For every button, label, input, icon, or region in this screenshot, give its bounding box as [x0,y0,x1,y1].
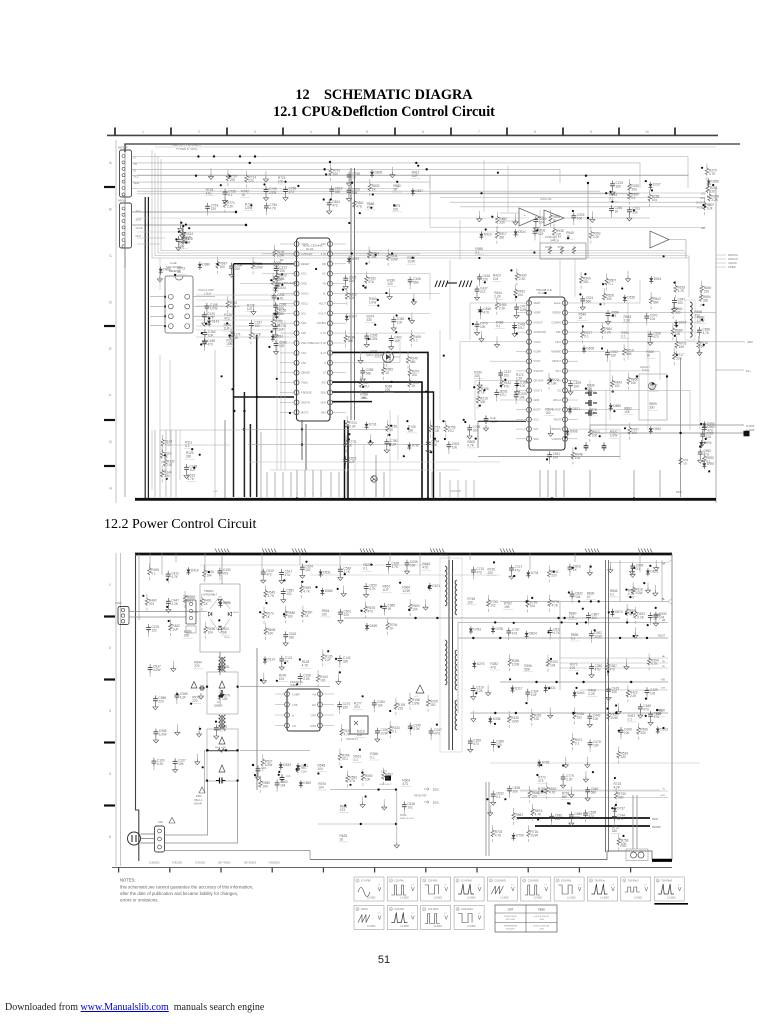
svg-text:1K: 1K [266,615,271,619]
wire [346,340,400,363]
svg-text:D514: D514 [654,277,662,281]
junction [340,766,342,768]
resistor R990 [703,451,715,468]
capacitor C160 bold [585,410,597,416]
svg-text:D885: D885 [613,404,621,408]
varistor block [207,672,238,714]
svg-text:47U: 47U [448,429,455,433]
label R668 [694,310,704,318]
capacitor C475 [146,624,159,637]
svg-text:1UF: 1UF [349,460,355,464]
wire SDA [132,224,248,226]
svg-text:100: 100 [473,429,479,433]
label R384 [384,385,394,393]
junction [168,620,170,622]
wire outer left [124,152,126,497]
svg-text:errors or omissions.: errors or omissions. [120,898,159,903]
svg-text:D699: D699 [370,624,378,628]
waveform box 5 [487,877,517,901]
resistor R917 [495,227,507,244]
wire [490,360,516,362]
svg-text:D275: D275 [477,662,485,666]
svg-text:SDA: SDA [321,391,327,395]
junction [349,784,351,786]
ground [585,757,590,768]
ground [494,336,499,347]
capacitor C713 [471,567,484,580]
svg-text:L3-3602: L3-3602 [434,926,443,928]
wire drop [449,480,451,497]
resistor R948 [571,447,583,464]
svg-text:10K: 10K [551,381,558,385]
label R335 [178,240,188,248]
svg-text:STACUT: STACUT [534,369,545,373]
capacitor C325 [343,275,356,290]
resistor R703 [675,337,687,354]
svg-text:100: 100 [320,679,326,683]
svg-text:TR36/7/2007: TR36/7/2007 [504,916,517,918]
diode D871 [568,406,580,414]
svg-text:D114: D114 [268,657,276,661]
junction [205,323,207,325]
wire SCL dark [478,421,526,448]
resistor R923 [634,607,646,624]
resistor R938 [552,224,564,241]
junction [631,612,633,614]
resistor R573 [262,607,274,624]
junction [389,732,391,734]
junction [260,679,262,681]
wire pin [333,372,347,374]
resistor R293 [706,181,718,198]
junction [533,251,535,253]
svg-text:473: 473 [473,742,479,746]
svg-text:x: x [539,493,541,495]
capacitor C188 [514,380,527,395]
junction [226,322,228,324]
svg-text:1.7: 1.7 [578,885,582,887]
capacitor bold EARS [275,281,297,290]
resistor R527 [261,754,273,771]
wire pin [333,352,347,354]
label R878 [588,408,598,416]
svg-text:1K: 1K [553,219,558,223]
svg-text:I5: I5 [134,168,137,172]
junction [612,314,614,316]
wire SCL [132,211,238,213]
svg-text:4.7E: 4.7E [321,252,327,256]
junction [615,712,617,714]
resistor R451 [514,285,526,302]
junction [592,771,594,773]
wire SCL thick [333,352,429,498]
waveform box 8 [588,877,618,901]
svg-text:4.7K: 4.7K [549,791,556,795]
ruler tick [282,128,284,136]
junction [645,180,647,182]
diode D514 [649,276,661,284]
junction [630,681,632,683]
ruler tick [226,128,228,136]
junction [284,662,286,664]
svg-text:GPT-DNT: GPT-DNT [506,919,516,921]
diode D283 [271,334,283,342]
junction [636,375,682,434]
diode D541 [296,763,308,771]
resistor R135 [321,649,333,666]
capacitor C433 [218,568,231,581]
wire [262,253,296,255]
resistor R178 [249,327,261,344]
svg-text:D804: D804 [529,632,537,636]
capacitor C100 [152,758,165,771]
svg-text:C20-P60D: C20-P60D [494,880,505,883]
resistor R251 [628,188,640,205]
resistor R597 [382,768,394,785]
svg-text:SENSE: SENSE [301,371,310,375]
resistor R717 [673,348,685,365]
label R219 [356,730,366,738]
wire rail [458,635,668,639]
op-amp U3B [544,210,564,226]
svg-text:SCL: SCL [301,311,307,315]
svg-text:XSPNON: XSPNON [550,427,561,431]
resistor R506 [637,723,649,740]
junction [611,807,613,809]
svg-text:10K: 10K [683,463,688,466]
wire rail [478,456,620,458]
resistor R394 [647,653,659,670]
wire rail [520,789,660,791]
junction [526,600,528,602]
resistor R580 [284,606,296,623]
svg-text:VCC: VCC [301,272,307,276]
junction [278,774,280,776]
svg-text:473: 473 [289,190,295,194]
svg-text:9: 9 [590,130,592,134]
svg-text:x: x [555,493,557,495]
junction [480,192,482,194]
junction [590,600,592,602]
junction [344,573,346,575]
svg-text:CRV: CRV [747,340,753,344]
wire pin [280,372,294,374]
svg-text:330: 330 [574,816,580,820]
svg-text:47U: 47U [253,336,260,340]
junction [615,704,617,706]
svg-text:C20-P60: C20-P60 [428,880,438,883]
svg-text:100: 100 [593,717,599,721]
junction [582,681,584,683]
wire pin [333,263,347,265]
svg-text:C20-P6v: C20-P6v [394,880,404,883]
svg-text:D951: D951 [222,665,230,669]
label R875 [392,204,402,212]
junction [676,325,678,327]
hatch mark [292,549,307,554]
svg-text:1UF: 1UF [325,658,331,662]
wire drop [473,480,475,497]
diode D331 [544,685,556,693]
svg-text:1.7: 1.7 [611,885,615,887]
svg-text:N2O: N2O [321,400,326,404]
junction [651,189,653,191]
svg-text:1K: 1K [177,270,182,274]
capacitor C798 [347,172,360,187]
waveform box 1 [354,877,384,901]
svg-text:330: 330 [618,796,624,800]
svg-text:1K: 1K [348,444,353,448]
label WDATA [716,253,738,257]
wire [243,392,245,497]
svg-text:330: 330 [703,298,709,302]
capacitor C598 [648,331,661,346]
svg-text:100: 100 [467,600,473,604]
wire [196,319,282,321]
capacitor C485 [638,704,651,719]
svg-text:G: G [109,440,112,444]
label box [186,626,196,633]
junction [436,617,438,619]
op-amp U3A [519,208,540,226]
label R576 [317,782,327,790]
wire drop [159,430,161,497]
wire pin [333,401,347,403]
junction [263,183,265,185]
diode D709 [512,833,524,841]
resistor R584 [601,322,613,339]
capacitor C611 [255,766,267,781]
resistor R752 [429,420,441,437]
wire pin [333,253,347,255]
ground [261,673,266,684]
resistor R496 [204,622,216,639]
wire [301,420,303,460]
label R373 [569,663,579,671]
junction [708,470,710,472]
svg-text:473: 473 [609,667,615,671]
ruler tick [450,128,452,136]
wire pin [516,341,527,343]
label pin [659,493,661,495]
left margin dash 2 [104,804,115,806]
svg-text:DN9G: DN9G [400,814,407,817]
label R125 [185,451,195,459]
diode D699 [365,623,377,631]
svg-text:FB30: FB30 [538,908,545,912]
junction [579,293,581,295]
label R643 [421,562,431,570]
svg-text:4.7K: 4.7K [552,603,559,607]
svg-text:47U: 47U [490,666,497,670]
svg-text:473: 473 [653,335,659,339]
grid number 2 [109,646,111,650]
wire pin [333,302,347,304]
label bold marks [459,281,472,288]
junction [430,451,432,453]
label R486 [495,321,505,329]
warning triangle [414,685,424,698]
svg-text:0.1: 0.1 [571,637,576,641]
resistor R654 [699,290,711,307]
svg-text:IGR20-88LT: IGR20-88LT [203,593,217,597]
svg-text:47U: 47U [500,393,507,397]
capacitor C139 [184,464,197,479]
resistor R913 [588,425,600,442]
junction [301,581,303,583]
ruler number [366,130,368,134]
ground [608,562,613,573]
wire [627,300,629,360]
svg-text:104: 104 [318,767,324,771]
grid letter D [109,301,112,305]
svg-text:56K: 56K [513,790,520,794]
svg-text:D338: D338 [493,717,501,721]
svg-text:SDA: SDA [134,181,140,185]
inductor L90 [685,300,695,340]
svg-text:330: 330 [186,455,192,459]
resistor R776 [548,595,560,612]
svg-text:330: 330 [499,235,505,239]
svg-text:D419: D419 [191,568,199,572]
wire [346,274,430,300]
svg-text:HPOUT: HPOUT [552,359,561,363]
svg-text:D906: D906 [570,430,578,434]
diode D805 [370,170,382,178]
svg-text:2.2K: 2.2K [588,692,595,696]
svg-text:FEEDK: FEEDK [552,311,561,315]
svg-text:2: 2 [109,646,111,650]
svg-text:56K: 56K [586,300,593,304]
hatch mark [262,549,277,554]
svg-text:10K: 10K [262,784,269,788]
svg-text:GND: GND [301,282,307,286]
ground bus bottom [135,498,716,501]
label R808 [466,440,476,448]
label R122 [246,304,256,312]
capacitor C983 [698,449,711,464]
ground [513,214,518,225]
svg-text:100: 100 [520,384,526,388]
svg-text:IC-0-P60: IC-0-P60 [361,880,371,883]
svg-text:C-4: C-4 [286,774,291,778]
diode D143 [207,319,219,327]
junction [178,231,180,233]
junction [702,204,704,206]
svg-text:100: 100 [675,332,681,336]
capacitor C854 [327,200,340,215]
waveform box 10 [654,877,684,901]
resistor R118 [160,447,171,464]
diode D847 [411,188,423,196]
svg-text:102: 102 [538,232,544,236]
svg-text:0.1: 0.1 [631,196,636,200]
junction [479,310,481,312]
bottom tiny refs [149,862,280,865]
resistor R528 [603,288,615,305]
junction [602,283,604,285]
resistor R881 [625,604,637,621]
capacitor C499 [619,727,632,740]
capacitor C909 [630,563,643,578]
svg-text:220: 220 [704,289,710,293]
svg-text:F60x: F60x [196,794,202,798]
junction [296,768,298,770]
svg-text:8021-CE5-845: 8021-CE5-845 [303,244,323,248]
svg-text:10K: 10K [226,342,233,346]
svg-text:2.2K: 2.2K [566,778,573,782]
wire [389,410,391,497]
capacitor C615 [283,631,296,646]
resistor R587 [301,606,313,623]
diode D535 [623,295,635,303]
svg-text:1.7: 1.7 [378,885,382,887]
capacitor C601 [338,609,351,624]
junction [575,447,577,449]
svg-text:473: 473 [476,571,482,575]
wire [578,409,640,411]
svg-text:1UF: 1UF [412,174,418,178]
svg-text:C5S: C5S [661,688,666,690]
thermistor block [207,729,238,751]
resistor R507 [605,273,617,290]
wire pin [516,399,527,401]
left margin dash 2 [104,678,115,680]
wire drop [165,430,167,497]
warning triangle [199,787,205,793]
label R261 [353,755,363,763]
svg-text:S-47: S-47 [321,351,327,355]
capacitor C815 [343,456,356,469]
svg-text:x: x [320,493,322,495]
junction [560,621,562,623]
resistor R770 [223,196,235,213]
label R793 [561,792,571,800]
junction [531,597,533,599]
wire [170,360,230,445]
svg-text:4.7K: 4.7K [369,587,376,591]
junction [536,774,538,776]
svg-text:473: 473 [332,204,338,208]
svg-text:100: 100 [279,344,285,348]
diode D534 [279,762,291,770]
resistor R304 [367,247,379,264]
capacitor C688 [569,812,582,827]
svg-text:C.S7: C.S7 [320,331,326,335]
svg-text:4.7K: 4.7K [269,207,276,211]
svg-text:x: x [547,493,549,495]
wire [574,259,576,297]
svg-text:-289: -289 [539,919,544,921]
junction [176,693,178,695]
junction [609,191,611,193]
svg-text:R203: R203 [545,246,552,249]
svg-text:100: 100 [220,265,226,269]
junction [256,396,258,398]
svg-text:220: 220 [248,179,254,183]
svg-text:10K: 10K [624,410,631,414]
capacitor C784 [264,203,277,216]
junction [185,224,187,226]
junction [576,672,578,674]
label R149 [278,673,288,681]
diode D566 [320,588,332,596]
wire drop [389,554,391,563]
left margin dash [104,419,115,421]
junction [504,379,506,381]
capacitor C763 [205,203,218,216]
wire pin [516,380,527,382]
